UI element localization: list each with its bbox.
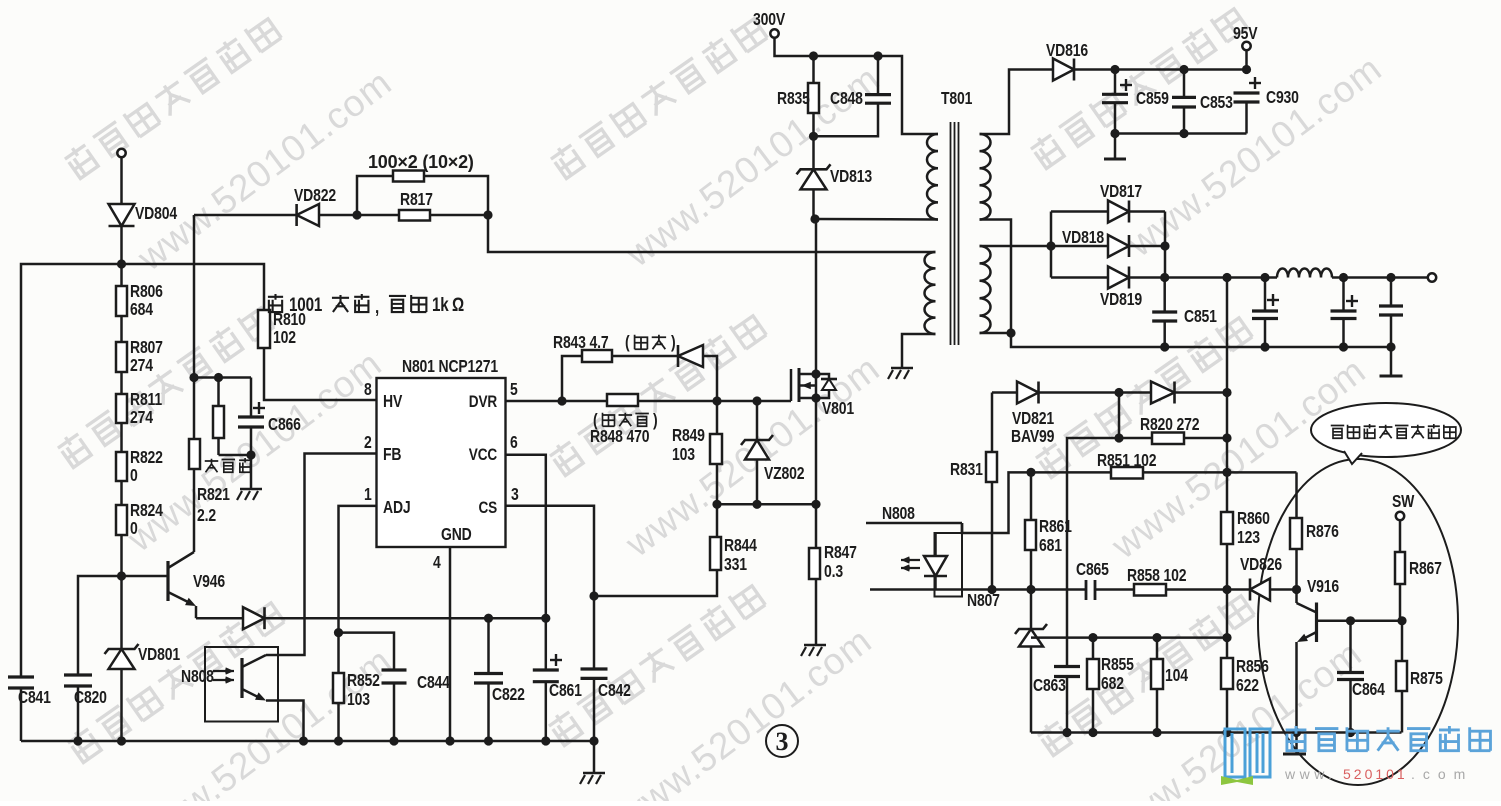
terminal output <box>1428 273 1436 281</box>
svg-text:VD818: VD818 <box>1062 229 1104 248</box>
ground under output cap <box>1380 375 1403 378</box>
svg-text:VZ802: VZ802 <box>764 465 805 484</box>
capacitor C853 <box>1183 70 1186 98</box>
svg-text:VD819: VD819 <box>1100 291 1142 310</box>
svg-text:0.3: 0.3 <box>824 563 843 582</box>
svg-text:1: 1 <box>364 486 372 505</box>
junction C842 at rail <box>589 736 598 745</box>
capacitor C859 (electrolytic) <box>1114 70 1117 95</box>
wire N808 anode stub <box>866 522 962 525</box>
junction elco1 top <box>1260 273 1269 282</box>
capacitor (electrolytic, output 2) <box>1342 278 1345 312</box>
svg-text:N807: N807 <box>967 592 1000 611</box>
wire CS pin 3 <box>506 506 595 596</box>
junction V801 source <box>811 393 820 402</box>
wire R851 feedback line <box>962 472 1111 533</box>
svg-text:N808: N808 <box>882 505 915 524</box>
wire VD801 to rail <box>120 669 123 741</box>
ground under C859 <box>1114 134 1117 159</box>
svg-text:C822: C822 <box>492 686 525 705</box>
wire VD821 node down <box>1118 393 1121 439</box>
transformer primary winding lower <box>924 252 935 334</box>
junction VD818 anode <box>1046 241 1055 250</box>
junction R835 bottom node <box>809 132 818 141</box>
junction C864 at rail <box>1346 728 1355 737</box>
svg-text:VD804: VD804 <box>135 205 177 224</box>
svg-text:1k: 1k <box>432 293 449 315</box>
diode VD817 <box>1051 210 1108 213</box>
junction C822 top <box>484 614 493 623</box>
resistor R843 <box>582 350 612 362</box>
resistor R820 <box>1119 437 1152 440</box>
logo text 家电维修资料网 (decorative) <box>1286 726 1307 751</box>
svg-text:103: 103 <box>347 691 370 710</box>
svg-text:R844: R844 <box>724 537 757 556</box>
wire VD822 anode <box>194 214 297 217</box>
resistor R851 <box>1111 467 1143 479</box>
wire R806-R807 <box>120 316 123 342</box>
ground under V916 <box>1295 733 1298 754</box>
svg-text:V801: V801 <box>822 400 854 419</box>
svg-text:103: 103 <box>672 446 695 465</box>
svg-text:C859: C859 <box>1136 90 1169 109</box>
capacitor (output 3) <box>1390 278 1393 307</box>
ground under C866 <box>240 488 262 491</box>
capacitor C864 <box>1349 621 1352 673</box>
junction VD821 cathode node <box>1114 388 1123 397</box>
resistor R861 <box>1030 472 1033 520</box>
junction R851 at riser <box>1222 468 1231 477</box>
diode VD821 <box>1017 382 1039 404</box>
junction R817 right node <box>483 210 492 219</box>
junction ADJ-R852 node wire <box>339 633 395 670</box>
capacitor C842 <box>593 596 596 669</box>
diode VD813 (zener) <box>812 136 815 169</box>
junction R867-R875 node <box>1397 616 1406 625</box>
svg-text:HV: HV <box>383 393 403 412</box>
svg-text:R876: R876 <box>1306 523 1339 542</box>
optocoupler N808 phototransistor <box>240 658 243 698</box>
junction R852 at rail <box>334 736 343 745</box>
svg-text:BAV99: BAV99 <box>1011 428 1055 447</box>
diode (second, VD821 pair) <box>1151 382 1175 404</box>
capacitor C865 <box>1085 580 1088 600</box>
svg-text:274: 274 <box>130 409 153 428</box>
junction secondary tap <box>1006 328 1015 337</box>
resistor R821 <box>189 439 200 469</box>
junction C861 at rail <box>541 736 550 745</box>
svg-text:R848 470: R848 470 <box>590 428 650 447</box>
wire R822-R824 <box>120 481 123 505</box>
wire to gate node <box>717 400 757 403</box>
svg-text:(: ( <box>625 334 630 353</box>
resistor R824 <box>116 505 127 535</box>
wire to MOSFET gate <box>757 400 791 403</box>
wire node to VD801 <box>120 576 123 649</box>
junction GND at rail <box>445 736 454 745</box>
wire to C863 riser <box>1067 438 1119 667</box>
junction V916 emitter at rail <box>1292 728 1301 737</box>
watermark text 家电维修资料网 (decorative) <box>548 14 767 180</box>
svg-text:N801 NCP1271: N801 NCP1271 <box>402 358 498 377</box>
resistor R810 <box>122 264 265 310</box>
svg-text:N808: N808 <box>181 668 214 687</box>
svg-text:R822: R822 <box>130 449 163 468</box>
svg-text:R843 4.7: R843 4.7 <box>553 334 609 353</box>
transistor V801 (MOSFET) <box>790 369 793 401</box>
svg-text:R855: R855 <box>1101 656 1134 675</box>
ground under C842 <box>583 772 605 775</box>
watermark text 家电维修资料网 (decorative) <box>1028 4 1247 170</box>
junction C853 top <box>1179 65 1188 74</box>
svg-text:C844: C844 <box>417 674 450 693</box>
optocoupler N808 LED <box>934 533 937 556</box>
svg-text:,: , <box>375 295 379 317</box>
ground under transformer <box>891 367 913 370</box>
IC N801 NCP1271 body <box>377 378 506 547</box>
svg-text:C842: C842 <box>598 682 631 701</box>
wire C866 to ground <box>250 455 253 488</box>
label 未编号 <box>205 459 219 473</box>
wire base node to C820 <box>78 576 122 675</box>
wire R858 to riser <box>1166 588 1227 591</box>
wire node to R806 <box>120 264 123 286</box>
wire diode to riser <box>1175 391 1228 394</box>
resistor R858 <box>1134 584 1166 596</box>
junction C863 at rail <box>1062 728 1071 737</box>
svg-text:C841: C841 <box>18 689 51 708</box>
capacitor C930 (electrolytic) <box>1249 82 1261 84</box>
node VD822-R821 (vertical feed) <box>189 373 198 382</box>
junction VD818 cathode <box>1160 241 1169 250</box>
wire C865 to R858 <box>1095 588 1134 591</box>
svg-text:95V: 95V <box>1233 25 1258 44</box>
wire clamp row <box>1031 636 1227 639</box>
resistor R849 <box>716 401 719 434</box>
wire C866 top <box>194 376 251 379</box>
transformer T801 core <box>950 122 952 345</box>
wire R843 branch up <box>562 356 582 401</box>
svg-text:R821: R821 <box>197 486 230 505</box>
wire primary lower to ground <box>902 334 936 367</box>
transformer primary winding upper <box>927 134 938 220</box>
bottom rail right section <box>1031 731 1402 734</box>
junction C844 at rail <box>389 736 398 745</box>
junction R820 right at riser <box>1222 433 1231 442</box>
svg-text:102: 102 <box>273 329 296 348</box>
watermark text 家电维修资料网 (decorative) <box>546 581 765 747</box>
resistor R856 <box>1221 658 1233 689</box>
wire VD822 to R817 node <box>319 214 357 217</box>
diode VD818 <box>1051 245 1108 248</box>
svg-text:R811: R811 <box>130 391 162 410</box>
svg-text:8: 8 <box>364 381 372 400</box>
speech bubble (这部分电路未安装) <box>1311 403 1461 457</box>
wire node left branch <box>21 264 122 677</box>
wire N807 cathode stub <box>870 588 992 591</box>
watermark text 家电维修资料网 (decorative) <box>1033 313 1252 479</box>
terminal 95V <box>1242 42 1250 50</box>
terminal 300V <box>770 29 778 37</box>
junction ADJ node <box>334 628 343 637</box>
junction C851 bottom <box>1160 342 1169 351</box>
svg-text:R867: R867 <box>1409 560 1442 579</box>
junction cap3 at rail <box>1386 342 1395 351</box>
light arrows out of N808 LED <box>901 559 920 561</box>
junction elco2 top <box>1339 273 1348 282</box>
junction node at left rail top <box>117 259 126 268</box>
wire output bus <box>1129 276 1277 279</box>
transformer secondary winding upper <box>980 134 991 220</box>
diode (DVR branch) <box>678 345 703 367</box>
wire source sense node <box>717 503 816 506</box>
resistor R817 <box>357 214 399 217</box>
junction 95V node <box>1242 65 1251 74</box>
diode VD816 <box>1053 59 1074 81</box>
diode VD804 <box>109 204 135 226</box>
watermark text 家电维修资料网 (decorative) <box>62 14 281 180</box>
junction R855 at rail <box>1088 728 1097 737</box>
junction R856 at rail <box>1222 728 1231 737</box>
junction clamp row at riser <box>1222 633 1231 642</box>
wire R807-R811 <box>120 372 123 394</box>
svg-text:VD816: VD816 <box>1046 42 1088 61</box>
svg-text:C861: C861 <box>549 682 582 701</box>
junction VZ802 bottom <box>752 500 761 509</box>
svg-text:6: 6 <box>510 434 518 453</box>
zener diode VD801 <box>105 644 139 654</box>
watermark text 家电维修资料网 (decorative) <box>55 303 274 469</box>
diode VD826 <box>1227 588 1250 591</box>
svg-text:V916: V916 <box>1307 578 1339 597</box>
transistor V916 <box>1295 590 1298 604</box>
wire secondary lower top to VD818 <box>980 245 1052 248</box>
svg-text:R806: R806 <box>130 283 163 302</box>
logo book icon (decorative) <box>1225 729 1270 777</box>
wire diode to VCC node <box>265 617 546 620</box>
resistor R848 <box>562 400 607 403</box>
inductor output filter <box>1277 269 1332 278</box>
svg-text:CS: CS <box>478 499 497 518</box>
watermark text 家电维修资料网 (decorative) <box>547 311 766 477</box>
svg-text:VCC: VCC <box>469 446 497 465</box>
svg-text:R820 272: R820 272 <box>1140 416 1200 435</box>
long riser wire (output to feedback) <box>1226 278 1229 513</box>
resistor R852 <box>337 633 340 673</box>
junction C848 top <box>873 51 882 60</box>
junction VD813 bottom <box>810 214 819 223</box>
junction feedback node at riser <box>1222 585 1231 594</box>
svg-text:VD822: VD822 <box>294 187 336 206</box>
svg-text:1001: 1001 <box>289 293 323 315</box>
junction 104 cap top <box>1152 633 1161 642</box>
capacitor C844 <box>382 668 407 671</box>
wire secondary upper bottom <box>980 220 1012 334</box>
wire diode to node <box>703 356 717 401</box>
junction R855 top <box>1088 633 1097 642</box>
wire R817 node to primary winding <box>488 215 936 252</box>
optocoupler N808 phototransistor box <box>205 647 278 722</box>
capacitor C841 <box>8 675 34 678</box>
junction R831 bottom at N807 wire <box>987 585 996 594</box>
resistor 100x2 <box>393 171 424 182</box>
wire SW to R867 <box>1399 520 1402 552</box>
svg-text:R807: R807 <box>130 339 163 358</box>
svg-text:VD817: VD817 <box>1100 183 1142 202</box>
svg-text:C848: C848 <box>830 90 863 109</box>
junction C859 bottom <box>1110 129 1119 138</box>
junction gate branch node <box>752 396 761 405</box>
svg-text:C930: C930 <box>1266 89 1299 108</box>
wire R821 top <box>193 378 196 440</box>
diode VD822 <box>297 204 319 226</box>
transistor V946 <box>122 575 169 578</box>
svg-text:C866: C866 <box>268 416 301 435</box>
capacitor 104 <box>1156 638 1159 659</box>
junction at riser top branch <box>1222 388 1231 397</box>
junction R817 left node <box>352 210 361 219</box>
svg-text:C864: C864 <box>1352 681 1385 700</box>
svg-text:DVR: DVR <box>469 393 497 412</box>
ground under R847 <box>804 644 826 647</box>
junction R861 bottom at N807 wire <box>1026 585 1035 594</box>
resistor R875 <box>1401 621 1404 661</box>
svg-text:R852: R852 <box>347 672 380 691</box>
resistor R811 <box>116 394 127 423</box>
svg-text:VD801: VD801 <box>138 646 180 665</box>
svg-text:R849: R849 <box>672 427 705 446</box>
resistor R806 <box>116 286 127 316</box>
wire VD813 node to winding <box>815 218 938 221</box>
junction cap3 top <box>1386 273 1395 282</box>
zener diode (N807 clamp) <box>1030 590 1033 630</box>
svg-text:R861: R861 <box>1039 518 1072 537</box>
svg-text:682: 682 <box>1101 675 1124 694</box>
wire GND pin 4 <box>449 547 452 741</box>
svg-text:R817: R817 <box>400 191 433 210</box>
svg-text:R858 102: R858 102 <box>1127 567 1187 586</box>
junction C820 at rail <box>73 736 82 745</box>
svg-text:684: 684 <box>130 301 153 320</box>
wire terminal to VD804 <box>120 157 123 204</box>
bottom rail left section <box>21 740 594 743</box>
svg-text:2: 2 <box>364 434 372 453</box>
light arrows into N808 <box>213 670 234 672</box>
svg-text:C851: C851 <box>1184 308 1217 327</box>
junction 104 at rail <box>1152 728 1161 737</box>
resistor R876 <box>1290 518 1302 549</box>
svg-text:274: 274 <box>130 357 153 376</box>
svg-text:3: 3 <box>511 486 519 505</box>
note 用1001代用，都是1kΩ <box>268 293 464 317</box>
junction VCC node <box>541 614 550 623</box>
svg-text:104: 104 <box>1165 667 1188 686</box>
junction VD801 at rail <box>117 736 126 745</box>
wire rectifier left bus <box>1050 212 1053 278</box>
resistor R822 <box>116 452 127 481</box>
resistor R867 <box>1395 552 1405 584</box>
ellipse (not installed outline) <box>1258 459 1458 785</box>
resistor unnumbered (未编号) <box>217 378 220 407</box>
svg-text:C820: C820 <box>74 689 107 708</box>
svg-text:3: 3 <box>776 727 789 756</box>
wire VD816 to 95V <box>1074 68 1247 71</box>
svg-text:331: 331 <box>724 556 747 575</box>
wire R810 to HV pin <box>264 348 377 400</box>
wire ADJ pin 1 <box>339 506 377 633</box>
svg-text:.com: .com <box>1411 766 1473 782</box>
watermark text 家电维修资料网 (decorative) <box>65 598 284 764</box>
junction R820 left node <box>1114 433 1123 442</box>
svg-text:123: 123 <box>1237 529 1260 548</box>
svg-text:0: 0 <box>130 520 138 539</box>
svg-text:): ) <box>671 334 676 353</box>
zener diode VZ802 <box>756 401 759 440</box>
capacitor (electrolytic, output 1) <box>1264 278 1267 312</box>
wire secondary lower bottom <box>980 332 1012 335</box>
svg-text:100×2 (10×2): 100×2 (10×2) <box>368 152 474 172</box>
wire rail to ground <box>593 741 596 772</box>
capacitor C851 <box>1163 278 1166 313</box>
wire after inductor <box>1332 276 1432 279</box>
svg-text:2.2: 2.2 <box>197 507 216 526</box>
wire R843 to diode <box>612 355 678 358</box>
svg-text:R831: R831 <box>950 461 983 480</box>
wire parallel branch up-right <box>424 176 488 215</box>
svg-text:4: 4 <box>433 554 441 573</box>
svg-text:622: 622 <box>1236 677 1259 696</box>
resistor R860 <box>1221 512 1233 544</box>
svg-text:VD826: VD826 <box>1240 556 1282 575</box>
svg-text:520101: 520101 <box>1343 766 1408 782</box>
svg-text:C865: C865 <box>1076 561 1109 580</box>
capacitor C820 <box>64 673 92 676</box>
svg-text:R824: R824 <box>130 502 163 521</box>
wire V946 emitter to diode <box>196 617 243 620</box>
resistor R847 <box>815 504 818 548</box>
svg-text:5: 5 <box>510 381 518 400</box>
junction R835 top <box>809 51 818 60</box>
wire tap to output rail <box>1011 333 1391 347</box>
wire secondary upper top <box>980 70 1054 135</box>
svg-text:VD821: VD821 <box>1012 410 1054 429</box>
wire 95V ground rail <box>1115 132 1247 135</box>
junction V801 drain <box>811 369 820 378</box>
optocoupler N808 LED box <box>961 523 964 533</box>
wire R876 feed <box>1295 472 1298 518</box>
resistor R835 <box>812 56 815 83</box>
svg-text:R875: R875 <box>1410 670 1443 689</box>
terminal SW <box>1396 512 1404 520</box>
wire DVR pin 5 <box>506 400 563 403</box>
capacitor C848 <box>877 56 880 95</box>
wire VD821 cathode to node <box>1039 391 1152 394</box>
junction C853 bottom <box>1179 129 1188 138</box>
wire 300V rail <box>775 38 939 135</box>
svg-text:ADJ: ADJ <box>383 499 410 518</box>
svg-text:R847: R847 <box>824 544 857 563</box>
wire VCC pin 6 <box>506 455 546 618</box>
junction R849 bottom <box>712 500 721 509</box>
wire FB pin 2 <box>266 454 377 656</box>
wire V916 base row <box>1317 620 1403 623</box>
junction source node <box>811 500 820 509</box>
resistor R855 <box>1092 638 1095 659</box>
svg-text:): ) <box>653 412 658 431</box>
label （代换后） R848 470 <box>593 412 658 431</box>
junction CS node <box>589 591 598 600</box>
transformer secondary winding lower <box>980 246 991 333</box>
